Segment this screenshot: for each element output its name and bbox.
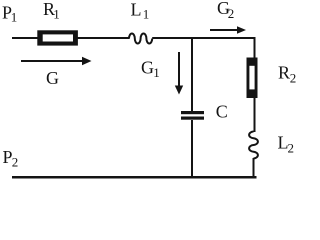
svg-text:2: 2: [288, 141, 295, 156]
svg-text:1: 1: [53, 6, 60, 21]
svg-text:2: 2: [12, 155, 18, 170]
svg-text:1: 1: [11, 10, 17, 25]
svg-text:1: 1: [153, 65, 160, 80]
svg-text:R: R: [278, 63, 290, 83]
svg-text:G: G: [141, 58, 154, 78]
svg-text:G: G: [46, 68, 59, 88]
svg-text:2: 2: [228, 6, 235, 21]
svg-text:1: 1: [143, 7, 150, 22]
svg-text:C: C: [216, 101, 228, 121]
svg-text:L: L: [131, 0, 142, 19]
svg-text:2: 2: [290, 70, 297, 85]
